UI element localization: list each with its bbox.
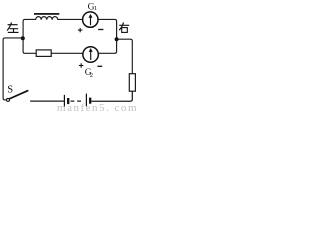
label right (you) [119,22,129,32]
G2 minus terminal sign [97,65,102,67]
wire: coil to G1 [58,18,83,20]
galvanometer G1 needle arrow [89,14,93,25]
galvanometer G2 circle [83,47,99,63]
node dot right [115,37,119,41]
wire: switch hinge to bottom-left corner up left vertical to node dot level [3,38,21,100]
label G2 [85,68,93,79]
galvanometer G1 circle [83,12,98,27]
battery BT1 left cell long plate [63,95,65,107]
node dot left [21,36,25,40]
wire: left vertical with top corner to coil and bottom corner to R1 [23,19,36,53]
switch S lever [9,91,27,99]
resistor R2 (right vertical) [129,74,135,92]
svg-text:S: S [7,84,13,95]
G1 plus terminal sign [78,28,83,32]
wire: R2 down, bottom right corner, left to battery [92,91,133,101]
battery BT1 left cell short plate [67,98,69,104]
battery BT1 right cell long plate [85,94,87,107]
switch S hinge circle [7,98,10,101]
resistor R1 (horizontal) [36,50,51,57]
svg-text:manfen5. com: manfen5. com [57,102,137,113]
inductor L1 iron core bar [34,13,59,15]
inductor L1 coil (4 humps) [36,17,58,20]
wire: battery to switch fixed contact [30,100,64,102]
label G1 [88,3,98,13]
wire: node dot to far right and down to R2 [118,39,132,73]
svg-text:1: 1 [94,5,97,12]
label left (zuo) [7,22,18,32]
battery BT1 right cell short plate [89,98,91,104]
wire: G1 to right top corner down to node dot [98,19,117,37]
wire: R1 to G2 [51,52,83,54]
galvanometer G2 needle arrow [89,48,93,60]
wire: G2 right to vertical up to node dot [98,41,116,54]
battery BT1 dashed middle link [71,100,84,102]
G1 minus terminal sign [98,29,103,31]
G2 plus terminal sign [79,63,84,67]
svg-text:2: 2 [90,72,93,79]
